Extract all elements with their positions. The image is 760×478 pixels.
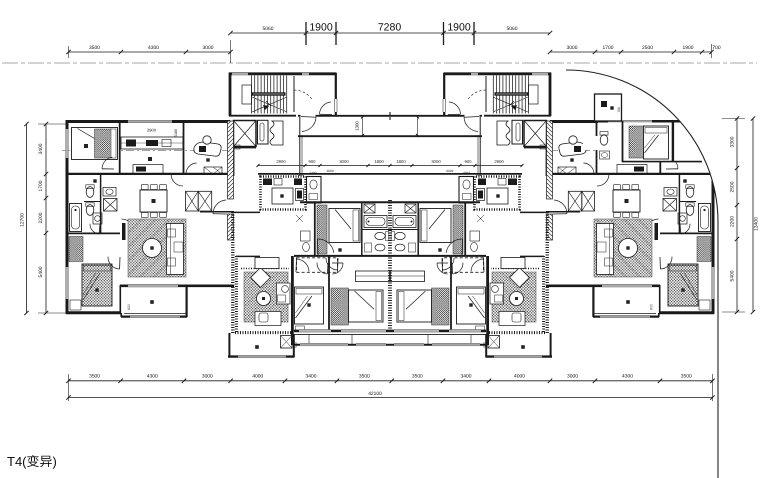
bedA door	[317, 239, 333, 253]
masterbath top dotted	[241, 268, 289, 270]
bed top-right	[644, 126, 669, 159]
hall arc2	[171, 174, 183, 186]
wall kitchen/study	[183, 121, 185, 174]
study label	[206, 158, 209, 161]
svg-text:5400: 5400	[730, 270, 736, 281]
wall bedA bottom	[294, 255, 390, 257]
bed4 shared wardrobe	[356, 271, 390, 282]
bath label	[93, 179, 96, 182]
svg-text:1400: 1400	[463, 171, 470, 175]
dim chain top-middle	[231, 32, 551, 34]
svg-text:2200: 2200	[730, 216, 736, 227]
bed3 table	[296, 326, 305, 331]
bed2 label	[95, 288, 98, 291]
dim chain top-left	[68, 51, 231, 53]
wall bottom center	[294, 330, 390, 333]
svg-text:3000: 3000	[203, 45, 214, 51]
svg-text:2500: 2500	[730, 181, 736, 192]
wall innerblock top	[232, 211, 260, 213]
stair door leaf	[293, 76, 295, 112]
svg-text:3000: 3000	[202, 374, 213, 380]
bathtub BT1	[70, 204, 82, 232]
study desk	[194, 142, 221, 156]
wall bedA top	[300, 201, 390, 203]
balcony1 rail	[124, 313, 186, 315]
wall under top row	[66, 173, 230, 175]
bed1 door	[102, 157, 112, 169]
svg-text:5060: 5060	[507, 26, 518, 32]
svg-text:1900: 1900	[447, 22, 471, 34]
site boundary arc	[566, 70, 718, 478]
dim chain top-right	[550, 51, 712, 53]
wall b3/b4	[328, 256, 330, 331]
toilet WC2	[86, 205, 94, 216]
window bed3 bottom	[341, 329, 386, 332]
svg-text:3000: 3000	[431, 159, 441, 164]
svg-text:1900: 1900	[309, 22, 333, 34]
masterbath shower	[251, 268, 271, 288]
bedA wardrobe	[317, 205, 327, 254]
masterbath dotted walls	[235, 256, 238, 332]
svg-text:600: 600	[127, 304, 131, 310]
balcony2 label	[255, 345, 259, 349]
bathA basin	[375, 244, 385, 251]
svg-text:2200: 2200	[38, 212, 44, 223]
kitchen2 appl	[263, 179, 272, 186]
svg-text:3000: 3000	[567, 374, 578, 380]
kitchen2 fridge	[296, 189, 304, 201]
svg-text:3500: 3500	[681, 374, 692, 380]
lobby wall left low	[233, 147, 235, 176]
bed B2	[82, 264, 112, 306]
balcony2 walls	[228, 333, 230, 357]
bed B4	[349, 290, 384, 322]
svg-text:700: 700	[712, 45, 720, 51]
window bed2	[65, 267, 68, 299]
svg-text:1600: 1600	[446, 169, 454, 173]
svg-text:T4(变异): T4(变异)	[7, 454, 57, 469]
bed2 table	[70, 300, 81, 310]
svg-text:700: 700	[617, 107, 621, 113]
dim chain bottom total	[69, 397, 713, 399]
unit entry door	[302, 117, 316, 131]
dim chain interior	[258, 165, 522, 167]
dim chain right total	[752, 119, 754, 313]
svg-text:900: 900	[465, 159, 473, 164]
kitchen2 island	[272, 188, 293, 204]
svg-text:1800: 1800	[396, 159, 406, 164]
wall stair right	[335, 73, 337, 116]
wall bedA/bath	[361, 203, 363, 256]
svg-text:3000: 3000	[339, 159, 349, 164]
svg-text:2500: 2500	[642, 45, 653, 51]
svg-text:5400: 5400	[38, 266, 44, 277]
svg-text:2900: 2900	[147, 128, 157, 133]
party wall	[388, 200, 391, 331]
balcony1 walls	[121, 316, 187, 318]
corridor wall right	[299, 117, 301, 176]
stair door swing	[294, 90, 312, 99]
svg-text:3500: 3500	[89, 45, 100, 51]
svg-text:3300: 3300	[730, 136, 736, 147]
wall stair top	[229, 72, 337, 75]
dim chain left	[45, 124, 47, 313]
closet X1	[186, 191, 199, 211]
balcony3 rail	[294, 334, 390, 336]
living tv	[122, 223, 126, 240]
svg-text:1300: 1300	[355, 121, 360, 131]
bed2 door	[108, 257, 120, 269]
masterbath door rect	[255, 258, 279, 269]
svg-text:1900: 1900	[683, 45, 694, 51]
window living bottom	[128, 284, 178, 287]
wall left step	[119, 285, 121, 314]
wall corner bedroom left	[622, 121, 624, 162]
kitchen label	[148, 157, 152, 161]
svg-text:1700: 1700	[603, 45, 614, 51]
hall/lobby wall band	[228, 121, 234, 199]
duct flue	[270, 121, 283, 145]
wall living/inner dotted	[231, 212, 234, 333]
right unit (mirrored)	[390, 72, 718, 358]
svg-text:1800: 1800	[374, 159, 384, 164]
bathA strip fix	[301, 231, 311, 241]
dim chain left total	[26, 124, 28, 313]
centerline	[2, 62, 757, 64]
svg-text:3400: 3400	[461, 374, 472, 380]
bed4 wardrobe band	[331, 288, 349, 325]
bed2 wardrobe	[69, 237, 83, 262]
stair break X	[252, 97, 287, 112]
wall wing top	[66, 120, 230, 123]
wall bed1/kitchen	[119, 121, 121, 174]
tower room door2	[320, 102, 331, 114]
wall bath bottom	[66, 232, 120, 234]
wall corridor2 bottom	[258, 173, 390, 175]
svg-text:4300: 4300	[622, 374, 633, 380]
masterbath basin circle	[257, 292, 271, 306]
entry dashed	[297, 258, 338, 273]
stair window	[232, 72, 248, 75]
svg-text:42100: 42100	[368, 391, 382, 397]
window bed1	[65, 129, 68, 158]
wall corner bottom	[622, 161, 702, 163]
dim chain bottom	[69, 380, 713, 382]
kitchen sideboard	[133, 165, 163, 174]
living circle table	[143, 239, 162, 258]
bathA shower	[364, 204, 375, 213]
svg-text:600: 600	[649, 304, 653, 310]
bath2 room	[307, 177, 322, 204]
storeroom box	[595, 94, 622, 121]
bed1 wardrobe	[95, 129, 112, 158]
living dotted floor	[128, 219, 186, 277]
corridor 1300 dim	[362, 117, 364, 136]
corridor bottom wall	[298, 135, 390, 137]
elevator shaft wall	[258, 120, 269, 144]
corner clear	[598, 123, 712, 162]
bed B3	[295, 287, 324, 324]
wall bath mid	[84, 201, 100, 203]
svg-text:4300: 4300	[148, 45, 159, 51]
bathA tub	[364, 216, 387, 228]
hall arc	[122, 219, 136, 232]
svg-text:3500: 3500	[412, 374, 423, 380]
svg-text:3500: 3500	[359, 374, 370, 380]
bed1 label	[84, 144, 88, 148]
bath door	[90, 224, 99, 234]
bed4 door	[332, 263, 343, 274]
kitchen counter	[121, 137, 183, 149]
svg-text:3500: 3500	[89, 374, 100, 380]
wall wing bottom bedroom	[66, 311, 121, 314]
window bed3b	[299, 329, 331, 332]
svg-text:1700: 1700	[38, 180, 44, 191]
wall stair left	[229, 73, 232, 117]
svg-text:4000: 4000	[252, 374, 263, 380]
svg-text:7280: 7280	[378, 22, 402, 34]
svg-text:3400: 3400	[38, 143, 44, 154]
dim chain right	[736, 119, 738, 313]
svg-text:3400: 3400	[306, 374, 317, 380]
stair landing	[252, 92, 286, 95]
shaft X	[104, 199, 118, 212]
wall corner bedroom right	[672, 121, 674, 162]
elevator U1	[234, 121, 257, 147]
study door	[186, 163, 197, 174]
svg-text:1600: 1600	[326, 169, 334, 173]
svg-text:5180: 5180	[174, 129, 178, 137]
balcony2 shaft	[281, 336, 293, 349]
bedA label	[338, 248, 341, 251]
svg-text:1400: 1400	[309, 171, 316, 175]
masterbath dotted	[244, 272, 288, 322]
arc exterior mask	[566, 58, 760, 222]
masterbath wc	[277, 283, 291, 304]
wall stair bottom	[229, 115, 296, 117]
bath right strip WC	[600, 135, 608, 145]
balcony1 window	[130, 315, 180, 318]
svg-text:2900: 2900	[276, 159, 286, 164]
washer	[93, 213, 102, 224]
study shelf	[204, 167, 222, 174]
bed B1	[72, 128, 118, 160]
hall entry door	[213, 200, 226, 214]
balcony1 label	[150, 300, 154, 304]
living sofa	[167, 224, 184, 275]
wall bath right	[100, 174, 102, 233]
wardrobe top-right	[629, 126, 644, 158]
basin	[103, 188, 116, 197]
svg-text:2900: 2900	[494, 159, 504, 164]
svg-text:3000: 3000	[567, 45, 578, 51]
wall wing left	[66, 120, 69, 314]
svg-text:900: 900	[309, 159, 317, 164]
wall living bottom	[120, 284, 234, 287]
kitchen window	[128, 120, 172, 123]
tower wall window gap	[334, 99, 338, 112]
toilet WC1	[86, 187, 94, 198]
kitchen2 walls	[261, 177, 306, 210]
wall living top partial	[200, 211, 234, 213]
svg-text:4300: 4300	[147, 374, 158, 380]
balcony2 window	[238, 355, 286, 358]
lobby wall bottom	[233, 147, 256, 149]
stair treads	[251, 76, 253, 114]
stair flight arrow	[266, 101, 271, 106]
svg-text:12700: 12700	[20, 213, 26, 227]
wall recess bottom	[298, 115, 390, 117]
bed A	[329, 209, 360, 243]
masterbath cab	[255, 312, 281, 326]
dining table	[140, 190, 167, 212]
bed3 door	[317, 263, 327, 274]
svg-text:5060: 5060	[263, 26, 274, 32]
wall left center	[291, 256, 293, 345]
bed3 label	[307, 303, 310, 306]
bathA wc	[375, 232, 385, 239]
wall bedA left	[314, 202, 316, 256]
axis dashed wing	[62, 150, 232, 152]
bathA wall	[362, 229, 390, 231]
svg-text:4000: 4000	[514, 374, 525, 380]
svg-text:13400: 13400	[754, 217, 760, 231]
